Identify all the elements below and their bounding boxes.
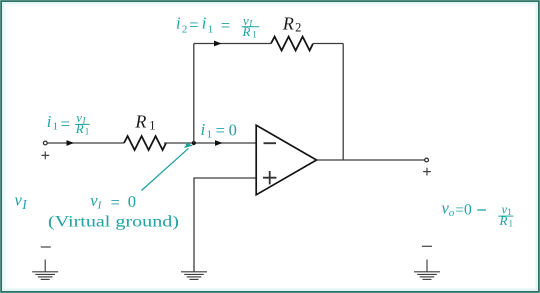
output minus polarity mark (422, 245, 432, 247)
virtual-ground pointer arrow (142, 143, 192, 190)
wire feedback top left segment (194, 43, 271, 45)
input plus polarity mark (41, 152, 49, 160)
current arrow i1 on input wire (67, 140, 75, 146)
svg-text:1: 1 (507, 207, 512, 217)
svg-text:1: 1 (149, 119, 155, 133)
label i1=0 at inverting input (201, 120, 237, 140)
current arrow i1 after junction (215, 140, 223, 146)
wire op-amp plus input (194, 178, 256, 272)
label vo = 0 - v1/R1 (output voltage) (442, 199, 514, 229)
label vI source (15, 190, 29, 212)
terminal output (425, 158, 429, 162)
resistor R2 (271, 37, 313, 51)
svg-text:o: o (449, 207, 455, 219)
node inverting-input junction (192, 141, 196, 145)
svg-text:R: R (282, 14, 294, 34)
input minus polarity mark (41, 246, 51, 248)
ground left (32, 260, 58, 280)
svg-text:=: = (111, 193, 120, 212)
op-amp inverting pin minus sign (264, 142, 277, 144)
wire R2 to corner (313, 43, 343, 45)
svg-text:1: 1 (53, 121, 59, 133)
svg-text:R: R (75, 121, 84, 136)
svg-text:R: R (134, 112, 146, 132)
svg-text:R: R (242, 24, 251, 39)
wire output (317, 159, 425, 161)
wire input segment (47, 142, 124, 144)
svg-text:=: = (61, 114, 70, 133)
ground middle (181, 272, 207, 280)
svg-text:=: = (455, 202, 464, 219)
op-amp U1 (256, 125, 316, 195)
ground right (414, 260, 440, 280)
svg-text:i: i (47, 112, 52, 131)
svg-text:=: = (189, 16, 198, 35)
svg-text:0: 0 (464, 201, 472, 218)
svg-text:1: 1 (509, 219, 514, 229)
label R2 (282, 14, 301, 35)
svg-text:i: i (176, 13, 181, 32)
svg-text:v: v (15, 190, 23, 209)
svg-text:(Virtual ground): (Virtual ground) (48, 214, 179, 231)
svg-text:R: R (499, 213, 508, 228)
wire R1 to op-amp minus input (164, 142, 256, 144)
svg-text:1: 1 (208, 24, 214, 36)
svg-text:=: = (216, 121, 225, 140)
svg-text:1: 1 (252, 30, 256, 40)
svg-text:0: 0 (128, 192, 136, 211)
svg-text:i: i (201, 120, 206, 139)
terminal input (43, 141, 47, 145)
svg-text:=: = (221, 16, 230, 35)
svg-text:i: i (202, 13, 207, 32)
svg-text:2: 2 (295, 21, 301, 35)
label i1 = vI/R1 (input current) (47, 110, 90, 137)
svg-text:1: 1 (85, 127, 90, 137)
resistor R1 (124, 136, 166, 150)
label i2=i1 = vI/R1 (feedback current) (176, 13, 259, 40)
wire feedback vertical up (193, 44, 195, 144)
op-amp non-inverting pin plus sign (263, 171, 276, 184)
svg-text:1: 1 (207, 128, 213, 140)
svg-text:2: 2 (182, 24, 188, 36)
output plus polarity mark (423, 168, 431, 176)
svg-text:0: 0 (229, 121, 237, 140)
current arrow i2 on top wire (214, 41, 222, 47)
label vI = 0 (virtual ground note) (48, 191, 179, 231)
wire feedback vertical down (342, 44, 344, 161)
label R1 (134, 112, 155, 133)
